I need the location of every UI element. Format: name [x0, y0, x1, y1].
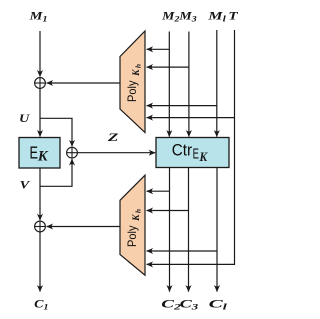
svg-text:C1: C1	[34, 298, 48, 311]
svg-text:M2M3: M2M3	[161, 10, 197, 23]
svg-text:h: h	[134, 64, 143, 68]
wire xor3 to C1	[39, 232, 41, 292]
svg-text:Cl: Cl	[209, 298, 229, 311]
wire poly-top output to xor1	[47, 82, 120, 84]
block Ctr EK	[156, 138, 229, 168]
trapezoid poly-top	[120, 31, 145, 133]
wire M3 branch to poly-top	[147, 66, 189, 68]
xor node X2	[67, 147, 78, 158]
svg-text:C3: C3	[180, 298, 199, 311]
wire C2 branch to poly-bottom	[147, 190, 170, 192]
svg-text:K: K	[199, 150, 209, 164]
wire Cl branch to poly-bottom	[147, 250, 217, 252]
wire C2 from Ctr down	[169, 168, 171, 292]
wire U branch to xor2	[40, 118, 72, 146]
wire Cl from Ctr down	[216, 168, 218, 292]
label Poly Kh bottom	[125, 209, 143, 247]
xor node X1	[35, 78, 46, 89]
svg-text:Z: Z	[106, 132, 118, 144]
svg-text:E: E	[193, 147, 199, 163]
wire Ml branch to poly-top	[147, 105, 217, 107]
svg-text:E: E	[30, 142, 39, 162]
wire Z from xor2 to Ctr	[77, 152, 155, 154]
svg-text:Ctr: Ctr	[172, 141, 193, 159]
wire xor1 to EK box	[39, 88, 41, 136]
svg-text:V: V	[20, 180, 32, 192]
wire C3 from Ctr down	[188, 168, 190, 292]
svg-text:Ml: Ml	[207, 11, 227, 24]
svg-text:K: K	[132, 214, 142, 222]
svg-text:T: T	[228, 10, 239, 22]
wire C3 branch to poly-bottom	[147, 210, 189, 212]
wire M2 branch to poly-top	[147, 48, 170, 50]
wire Ml down to Ctr	[216, 30, 218, 137]
wire T down then into poly-bottom	[147, 30, 235, 264]
svg-text:U: U	[19, 113, 30, 125]
wire EK to xor3	[39, 168, 41, 220]
svg-text:Poly: Poly	[125, 81, 139, 103]
label Poly Kh top	[125, 64, 143, 102]
wire M1 down to xor1	[39, 31, 41, 77]
xor node X3	[35, 221, 46, 232]
wire M2 down to Ctr	[168, 32, 170, 137]
block EK	[19, 138, 60, 169]
svg-text:Poly: Poly	[125, 226, 139, 248]
wire V branch to xor2	[40, 159, 72, 186]
svg-text:K: K	[37, 148, 49, 164]
wire M3 down to Ctr	[188, 32, 190, 137]
svg-text:C2: C2	[161, 298, 181, 311]
svg-text:K: K	[132, 69, 142, 77]
wire T branch to poly-top	[147, 117, 235, 119]
svg-text:h: h	[134, 209, 143, 213]
svg-text:M1: M1	[28, 10, 47, 23]
trapezoid poly-bottom	[120, 175, 145, 275]
wire poly-bottom output to xor3	[47, 226, 120, 228]
